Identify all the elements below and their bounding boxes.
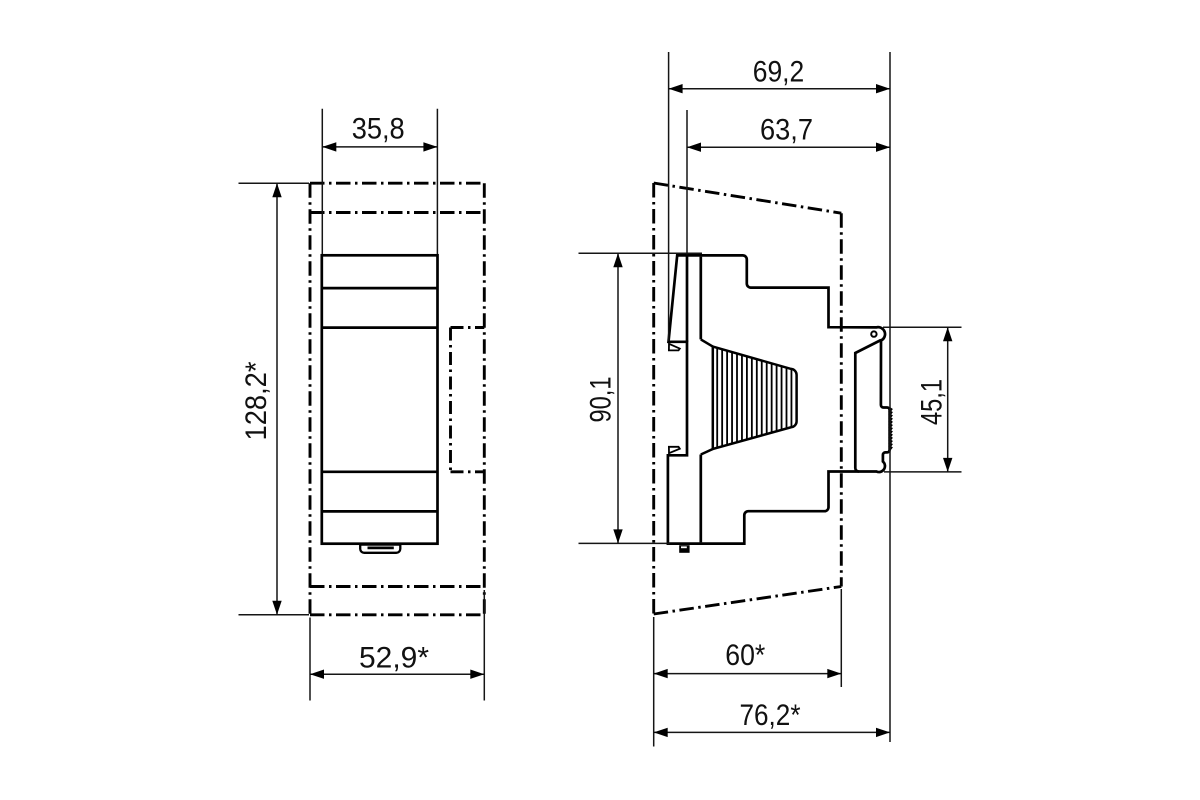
dimension line 35,8 xyxy=(322,146,437,148)
device front horizontal edge 2 xyxy=(322,326,438,329)
extension line top for 45,1 xyxy=(883,326,962,328)
DIN clip tab (front view bottom) xyxy=(360,545,400,553)
dimension line 60 xyxy=(654,673,842,675)
dimension line 45,1 xyxy=(947,327,949,472)
cover cross-section dash-dot trapezoid xyxy=(654,183,842,614)
svg-text:35,8: 35,8 xyxy=(352,113,405,146)
terminal funnel hatching xyxy=(717,348,791,447)
dimension line 128,2 xyxy=(276,183,278,615)
extension line shared right for 69,2 / 63,7 / 76,2 xyxy=(889,52,891,742)
extension line left for 52,9 xyxy=(309,618,311,701)
extension line right for 35,8 xyxy=(436,109,438,254)
extension line top for 90,1 xyxy=(579,252,703,254)
cover back-plane dash-dot line bottom (front view) xyxy=(310,585,484,588)
extension line left for 35,8 xyxy=(321,109,323,254)
extension line right for 52,9 xyxy=(483,590,485,701)
svg-text:90,1: 90,1 xyxy=(585,377,618,423)
dimension line 76,2 xyxy=(654,731,890,733)
clip slot left edge xyxy=(855,340,881,472)
extension line bottom for 45,1 xyxy=(884,471,962,473)
cover back-plane dash-dot line top (front view) xyxy=(310,211,484,214)
svg-text:69,2: 69,2 xyxy=(753,55,805,88)
svg-text:63,7: 63,7 xyxy=(760,113,813,146)
DIN clip tab (side view bottom) xyxy=(679,545,689,553)
dimension line 63,7 xyxy=(687,146,890,148)
clip pivot pin xyxy=(871,331,876,336)
device front horizontal edge 4 xyxy=(322,510,438,513)
DIN clip tab inner line (front view) xyxy=(368,547,394,550)
retaining lip wedge top xyxy=(669,344,680,351)
svg-text:128,2*: 128,2* xyxy=(240,361,273,440)
chamfer to funnel bottom xyxy=(701,449,713,455)
extension line left for 69,2 xyxy=(668,52,670,341)
terminal funnel outline xyxy=(713,347,797,449)
svg-text:52,9*: 52,9* xyxy=(359,641,429,674)
extension line top for 128,2 xyxy=(239,182,310,184)
front face vertical (side view) xyxy=(686,256,689,342)
extension line right for 60 xyxy=(840,589,842,687)
extension line left for 60 / 76,2 xyxy=(653,617,655,747)
retaining lip wedge bottom xyxy=(669,447,680,453)
device side profile outline xyxy=(668,255,890,543)
cover cutout dash-dot rectangle (front view) xyxy=(310,183,484,615)
chamfer to funnel top xyxy=(701,339,713,346)
clip serrated grip edge xyxy=(890,408,892,450)
svg-text:76,2*: 76,2* xyxy=(740,699,801,732)
extension line bottom for 90,1 xyxy=(579,542,671,544)
device front horizontal edge 3 xyxy=(322,470,438,473)
extension line left for 63,7 xyxy=(686,110,688,255)
svg-text:60*: 60* xyxy=(725,639,765,672)
hidden clip outline dash-dot small rect (front view right side) xyxy=(451,328,485,472)
svg-text:45,1: 45,1 xyxy=(916,379,949,425)
dimension line 69,2 xyxy=(669,88,890,90)
device front body rectangle xyxy=(322,255,438,543)
inner wall vertical bottom (side view) xyxy=(699,455,702,543)
dimension line 52,9 xyxy=(310,673,484,675)
extension line bottom for 128,2 xyxy=(239,614,310,616)
device front horizontal edge 1 xyxy=(322,287,438,290)
dimension line 90,1 xyxy=(617,253,619,543)
inner wall vertical top (side view) xyxy=(699,257,702,340)
